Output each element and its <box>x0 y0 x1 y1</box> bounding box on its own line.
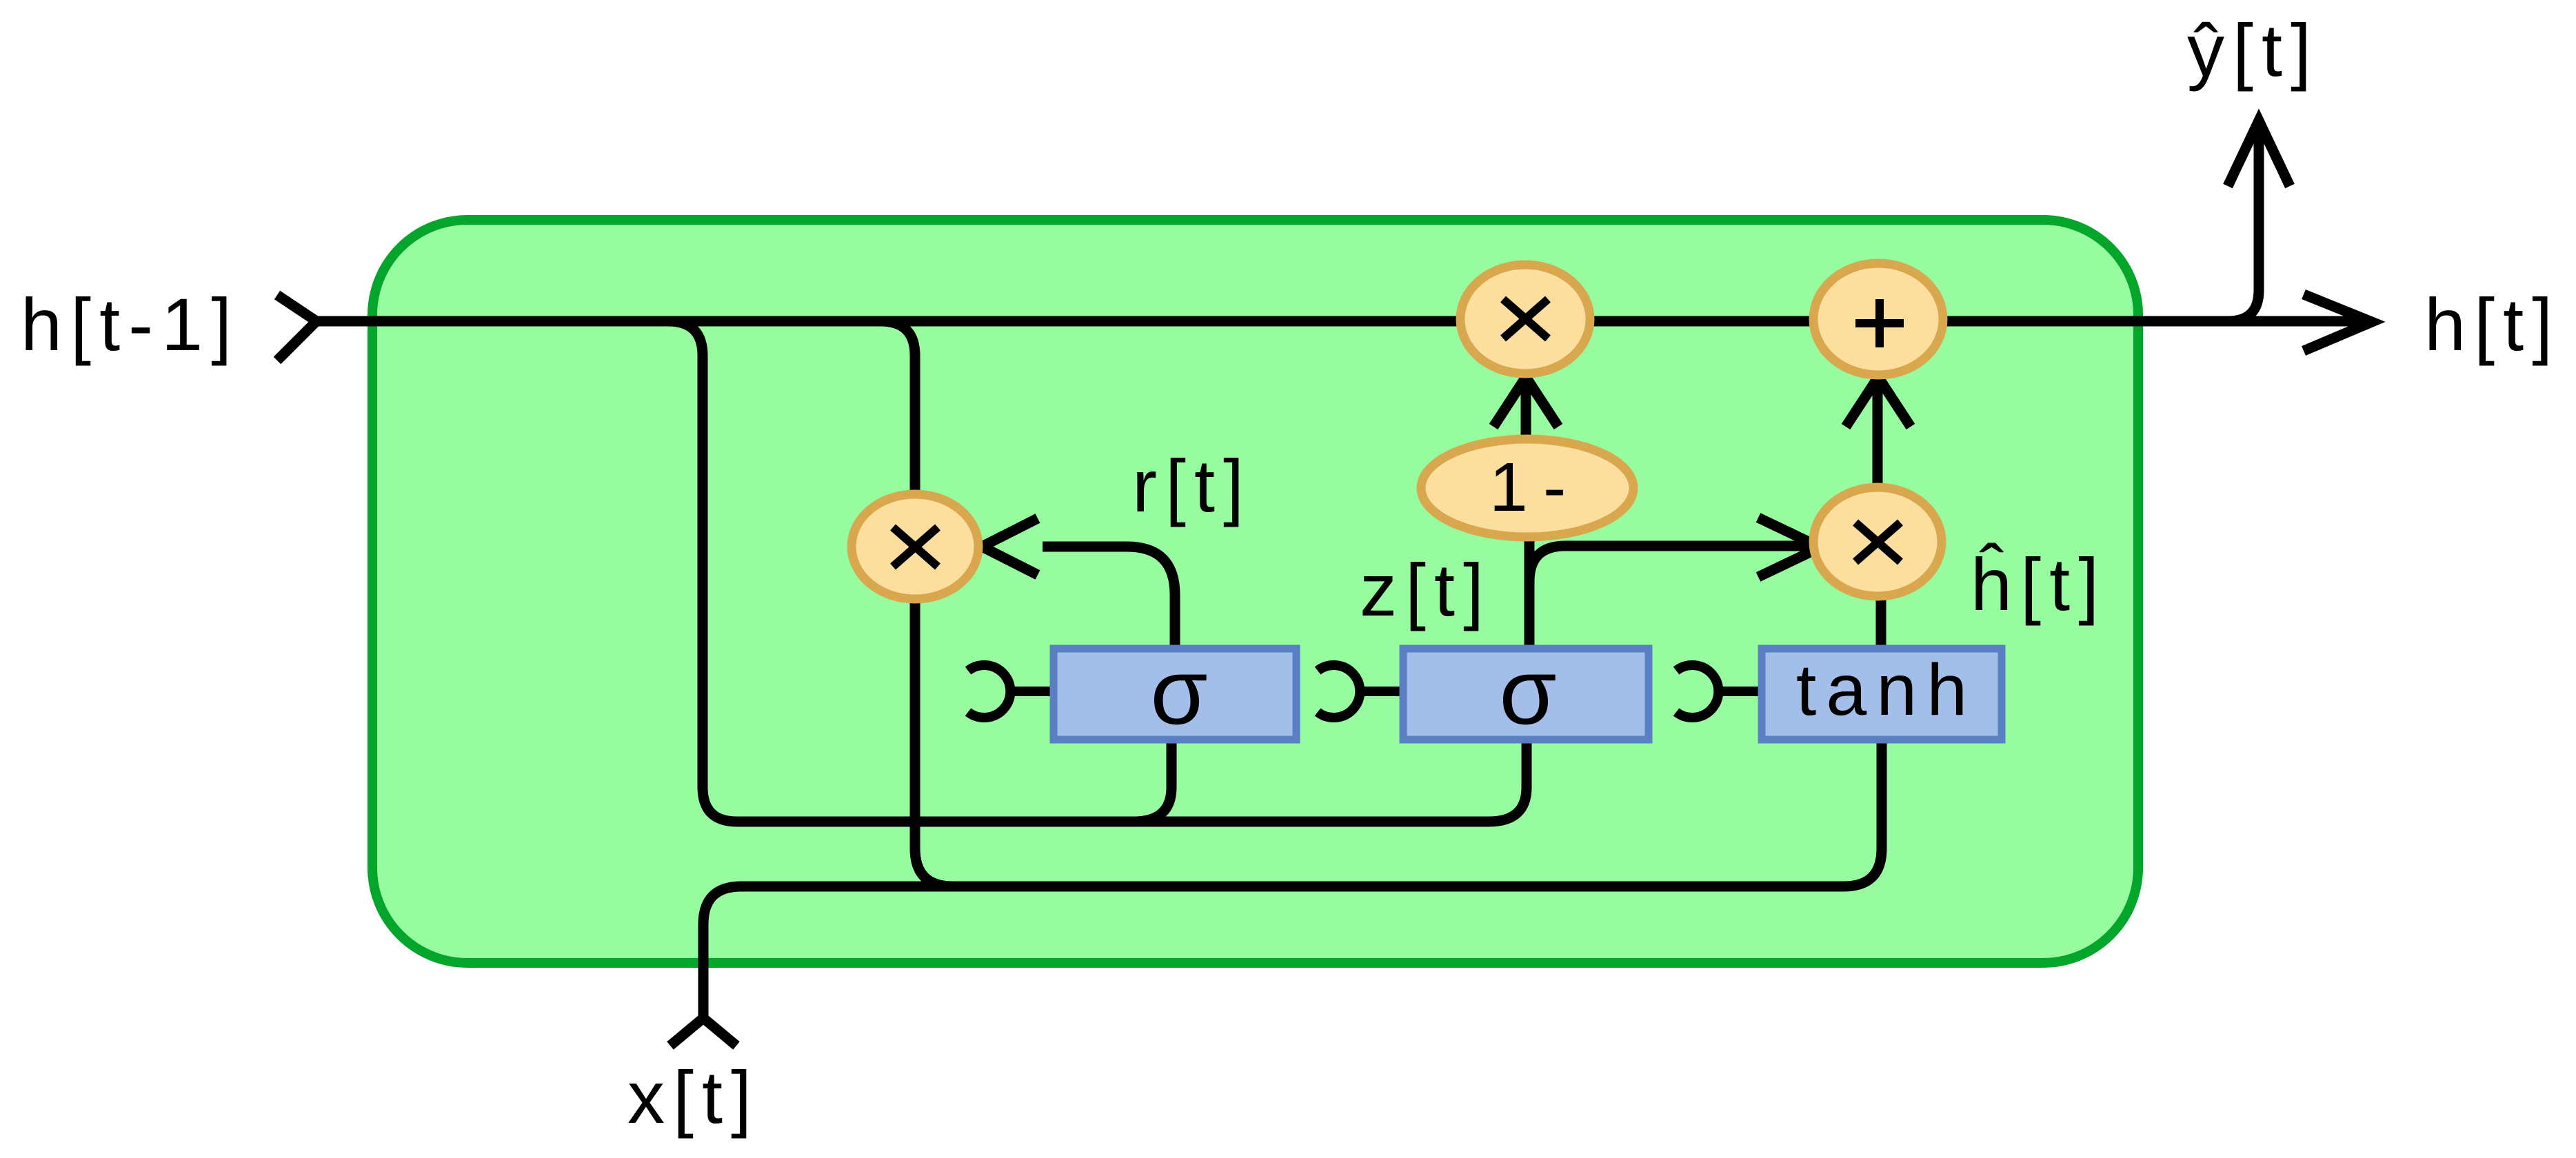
svg-text:x[t]: x[t] <box>627 1055 760 1139</box>
svg-text:h[t]: h[t] <box>2424 283 2561 366</box>
svg-text:σ: σ <box>1150 640 1207 744</box>
svg-text:-: - <box>1543 449 1566 526</box>
svg-text:r[t]: r[t] <box>1132 444 1252 527</box>
svg-text:σ: σ <box>1499 640 1556 744</box>
svg-text:ŷ[t]: ŷ[t] <box>2187 8 2320 92</box>
svg-text:1: 1 <box>1489 449 1528 526</box>
svg-text:z[t]: z[t] <box>1360 548 1492 631</box>
svg-text:h[t-1]: h[t-1] <box>21 283 240 366</box>
svg-text:tanh: tanh <box>1796 649 1977 731</box>
svg-text:ĥ[t]: ĥ[t] <box>1971 542 2107 626</box>
